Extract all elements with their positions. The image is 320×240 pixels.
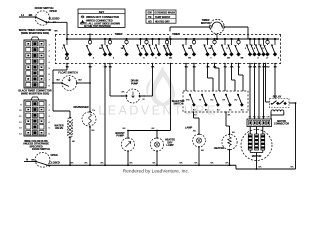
wire dispenser feed xyxy=(89,64,91,112)
motor connector J3 xyxy=(247,119,272,127)
svg-text:OR: OR xyxy=(104,66,108,68)
svg-text:SWITCH: SWITCH xyxy=(173,103,183,105)
svg-text:TIMER: TIMER xyxy=(172,33,180,36)
svg-text:3B: 3B xyxy=(188,48,191,50)
wires motor connector to motor windings xyxy=(249,127,251,135)
svg-text:BU: BU xyxy=(56,80,60,82)
drain pump xyxy=(131,80,139,83)
svg-text:TN: TN xyxy=(258,66,261,68)
timer cam switch contact 2 xyxy=(89,38,91,40)
wire relay to right return xyxy=(289,102,296,104)
svg-text:BK: BK xyxy=(89,66,93,68)
svg-text:BK: BK xyxy=(151,66,155,68)
timer cam switch contact 10 xyxy=(166,38,168,40)
timer motor TM leads xyxy=(170,26,210,28)
lamp xyxy=(185,126,193,130)
svg-text:HD: HD xyxy=(210,100,214,102)
svg-text:1B: 1B xyxy=(121,48,124,50)
timer cam switch contact 21 xyxy=(258,38,260,40)
timer cam switch contact 5 xyxy=(125,38,127,40)
motor connector J3 pin labels xyxy=(249,117,252,119)
wire selector to heater xyxy=(225,112,227,126)
timer motor TM xyxy=(210,19,224,33)
svg-text:BK: BK xyxy=(31,159,35,161)
wire right-edge return xyxy=(295,103,297,169)
timer cam switch contact 12 xyxy=(185,38,187,40)
timer cam switch contact 20 xyxy=(253,38,255,40)
svg-text:RD: RD xyxy=(224,66,228,68)
selector switch contact 1 xyxy=(189,94,191,96)
svg-text:BU: BU xyxy=(78,80,82,82)
wire relay coil feed xyxy=(265,64,267,103)
wire to water valve xyxy=(52,93,54,111)
motor winding at x=262.8 xyxy=(261,134,265,150)
timer cam switch contact 23 xyxy=(266,38,268,40)
svg-text:BK: BK xyxy=(54,31,58,33)
svg-text:BK: BK xyxy=(253,66,257,68)
float switch xyxy=(58,71,78,75)
timer cam switch contact 7 xyxy=(145,38,147,40)
svg-text:LEADVENTURE: LEADVENTURE xyxy=(98,104,217,118)
selector drop labels xyxy=(194,115,197,117)
svg-text:OPEN: OPEN xyxy=(51,154,58,157)
svg-text:N: N xyxy=(26,158,28,161)
wire boost pump to neutral xyxy=(127,151,129,165)
svg-text:DRAIN: DRAIN xyxy=(131,80,139,83)
wire from door switch S1 to timer bus xyxy=(46,21,67,23)
svg-text:2B: 2B xyxy=(169,58,172,60)
main motor xyxy=(241,130,272,161)
svg-text:BK: BK xyxy=(193,66,197,68)
svg-text:5B: 5B xyxy=(99,48,102,50)
svg-text:Rendered by LeadVenture, Inc.: Rendered by LeadVenture, Inc. xyxy=(123,168,189,174)
water valve solenoid xyxy=(54,124,63,128)
junction stub under key box xyxy=(89,34,91,39)
svg-text:WH: WH xyxy=(249,66,253,68)
svg-text:(WIRE INSERTION SIDE): (WIRE INSERTION SIDE) xyxy=(21,92,49,95)
timer cam switch contact 3 xyxy=(104,38,106,40)
wire drain pump left feed xyxy=(109,64,111,97)
motor winding at x=250.2 xyxy=(248,134,252,150)
door switch S2 (lower) xyxy=(35,152,50,167)
selector switch contact 4 xyxy=(225,94,227,96)
timer cam switch contact 17 xyxy=(230,38,232,40)
svg-text:TEMP BOOST: TEMP BOOST xyxy=(155,17,171,19)
label TIMER left xyxy=(112,31,125,35)
svg-text:9B: 9B xyxy=(227,58,230,60)
svg-text:TIMER: TIMER xyxy=(115,33,123,36)
door switch S1 (upper) xyxy=(35,11,49,25)
timer cam switch contact 9 xyxy=(158,38,160,40)
wire lamp to neutral xyxy=(198,147,200,165)
svg-text:MOTOR: MOTOR xyxy=(277,121,286,123)
wire heated dry lamp to neutral xyxy=(156,151,158,165)
svg-text:(WIRE INSERTION SIDE): (WIRE INSERTION SIDE) xyxy=(21,32,49,35)
black timer connector J2 xyxy=(18,90,51,93)
svg-text:BK: BK xyxy=(109,66,113,68)
timer cam switch contact 16 xyxy=(224,38,226,40)
selector switch contact 3 xyxy=(213,94,215,96)
svg-text:WH: WH xyxy=(262,117,266,119)
selector switch contact 5 xyxy=(237,94,239,96)
dispenser solenoid xyxy=(74,105,89,109)
wire float switch right lead xyxy=(77,82,90,84)
heated dry lamp xyxy=(165,139,175,142)
neutral rail xyxy=(49,164,236,166)
heater xyxy=(214,146,225,150)
main L1 bus rail xyxy=(67,38,279,40)
svg-text:BU: BU xyxy=(234,100,237,102)
options legend table xyxy=(146,10,176,23)
wire selector feeds xyxy=(185,64,187,92)
boost pump xyxy=(115,131,125,135)
svg-text:PUMP: PUMP xyxy=(131,83,138,86)
timer cam switch contact 6 xyxy=(139,38,141,40)
timer cam switch contact 1 xyxy=(66,38,68,40)
wire N supply lead xyxy=(24,161,36,163)
timer cam switch contact 13 xyxy=(193,38,195,40)
wire motor connector feeds xyxy=(249,64,251,120)
wire heater to neutral xyxy=(229,150,231,165)
selector switch contact 2 xyxy=(201,94,203,96)
svg-text:LAMP: LAMP xyxy=(167,144,174,147)
wire cam1 to float switch branch xyxy=(66,64,68,71)
wire neutral drop mid xyxy=(104,64,106,166)
svg-text:CONNECTOR: CONNECTOR xyxy=(274,124,289,126)
key legend box xyxy=(78,9,125,27)
timer cam switch contact 11 xyxy=(169,38,171,40)
timer cam switch contact 18 xyxy=(237,38,239,40)
timer dashed enclosure xyxy=(55,34,281,36)
wire boost branch feed xyxy=(170,64,172,131)
timer cam switch contact 19 xyxy=(249,38,251,40)
wire relay coil to motor connector xyxy=(270,112,272,120)
svg-text:TN: TN xyxy=(92,110,95,112)
timer cam switch contact 15 xyxy=(213,38,215,40)
timer cam switch contact 8 xyxy=(151,38,153,40)
wire float switch left lead xyxy=(53,82,62,84)
svg-text:BU: BU xyxy=(266,66,270,68)
selector switch enclosure xyxy=(172,101,185,103)
wire water valve to neutral xyxy=(69,138,71,166)
svg-text:BU: BU xyxy=(232,132,235,134)
svg-text:BK: BK xyxy=(274,66,278,68)
svg-text:BU: BU xyxy=(66,66,70,68)
relay coil xyxy=(271,110,284,112)
svg-text:SELECTOR: SELECTOR xyxy=(172,101,185,103)
svg-text:TIMER: TIMER xyxy=(202,19,210,22)
svg-text:BK: BK xyxy=(230,66,234,68)
svg-text:EW: EW xyxy=(186,100,189,102)
wire selector to lamp xyxy=(193,112,195,118)
wire relay top feed xyxy=(274,64,276,99)
svg-text:CLOSED: CLOSED xyxy=(49,162,60,165)
timer cam switch contact 4 xyxy=(109,38,111,40)
white timer connector J1 xyxy=(19,29,52,32)
motor winding at x=256.5 xyxy=(255,134,259,150)
wire dispenser to neutral xyxy=(89,127,91,165)
timer cam switch contact 24 xyxy=(274,38,276,40)
motor common to neutral xyxy=(249,150,251,153)
svg-text:7B: 7B xyxy=(188,58,191,60)
timer motor TM drop xyxy=(216,34,218,39)
footer caption xyxy=(123,168,189,174)
wire drain pump right return xyxy=(140,95,153,97)
svg-text:DOOR SWITCH: DOOR SWITCH xyxy=(32,148,50,151)
svg-text:6B: 6B xyxy=(209,48,212,50)
svg-text:8B: 8B xyxy=(241,58,244,60)
note wire color xyxy=(24,140,48,143)
svg-text:IN THE TOP POSITION: IN THE TOP POSITION xyxy=(84,25,111,28)
timer cam switch contact 14 xyxy=(206,38,208,40)
label TIMER xyxy=(169,31,183,35)
svg-text:BU: BU xyxy=(185,66,189,68)
timer cam switch contact 22 xyxy=(262,38,264,40)
wire boost pump branch xyxy=(128,130,171,132)
svg-text:MOTOR: MOTOR xyxy=(201,22,210,25)
svg-text:BU: BU xyxy=(193,131,196,133)
relay xyxy=(273,95,282,99)
wire L1 supply lead xyxy=(19,16,36,18)
svg-text:OR: OR xyxy=(206,66,210,68)
